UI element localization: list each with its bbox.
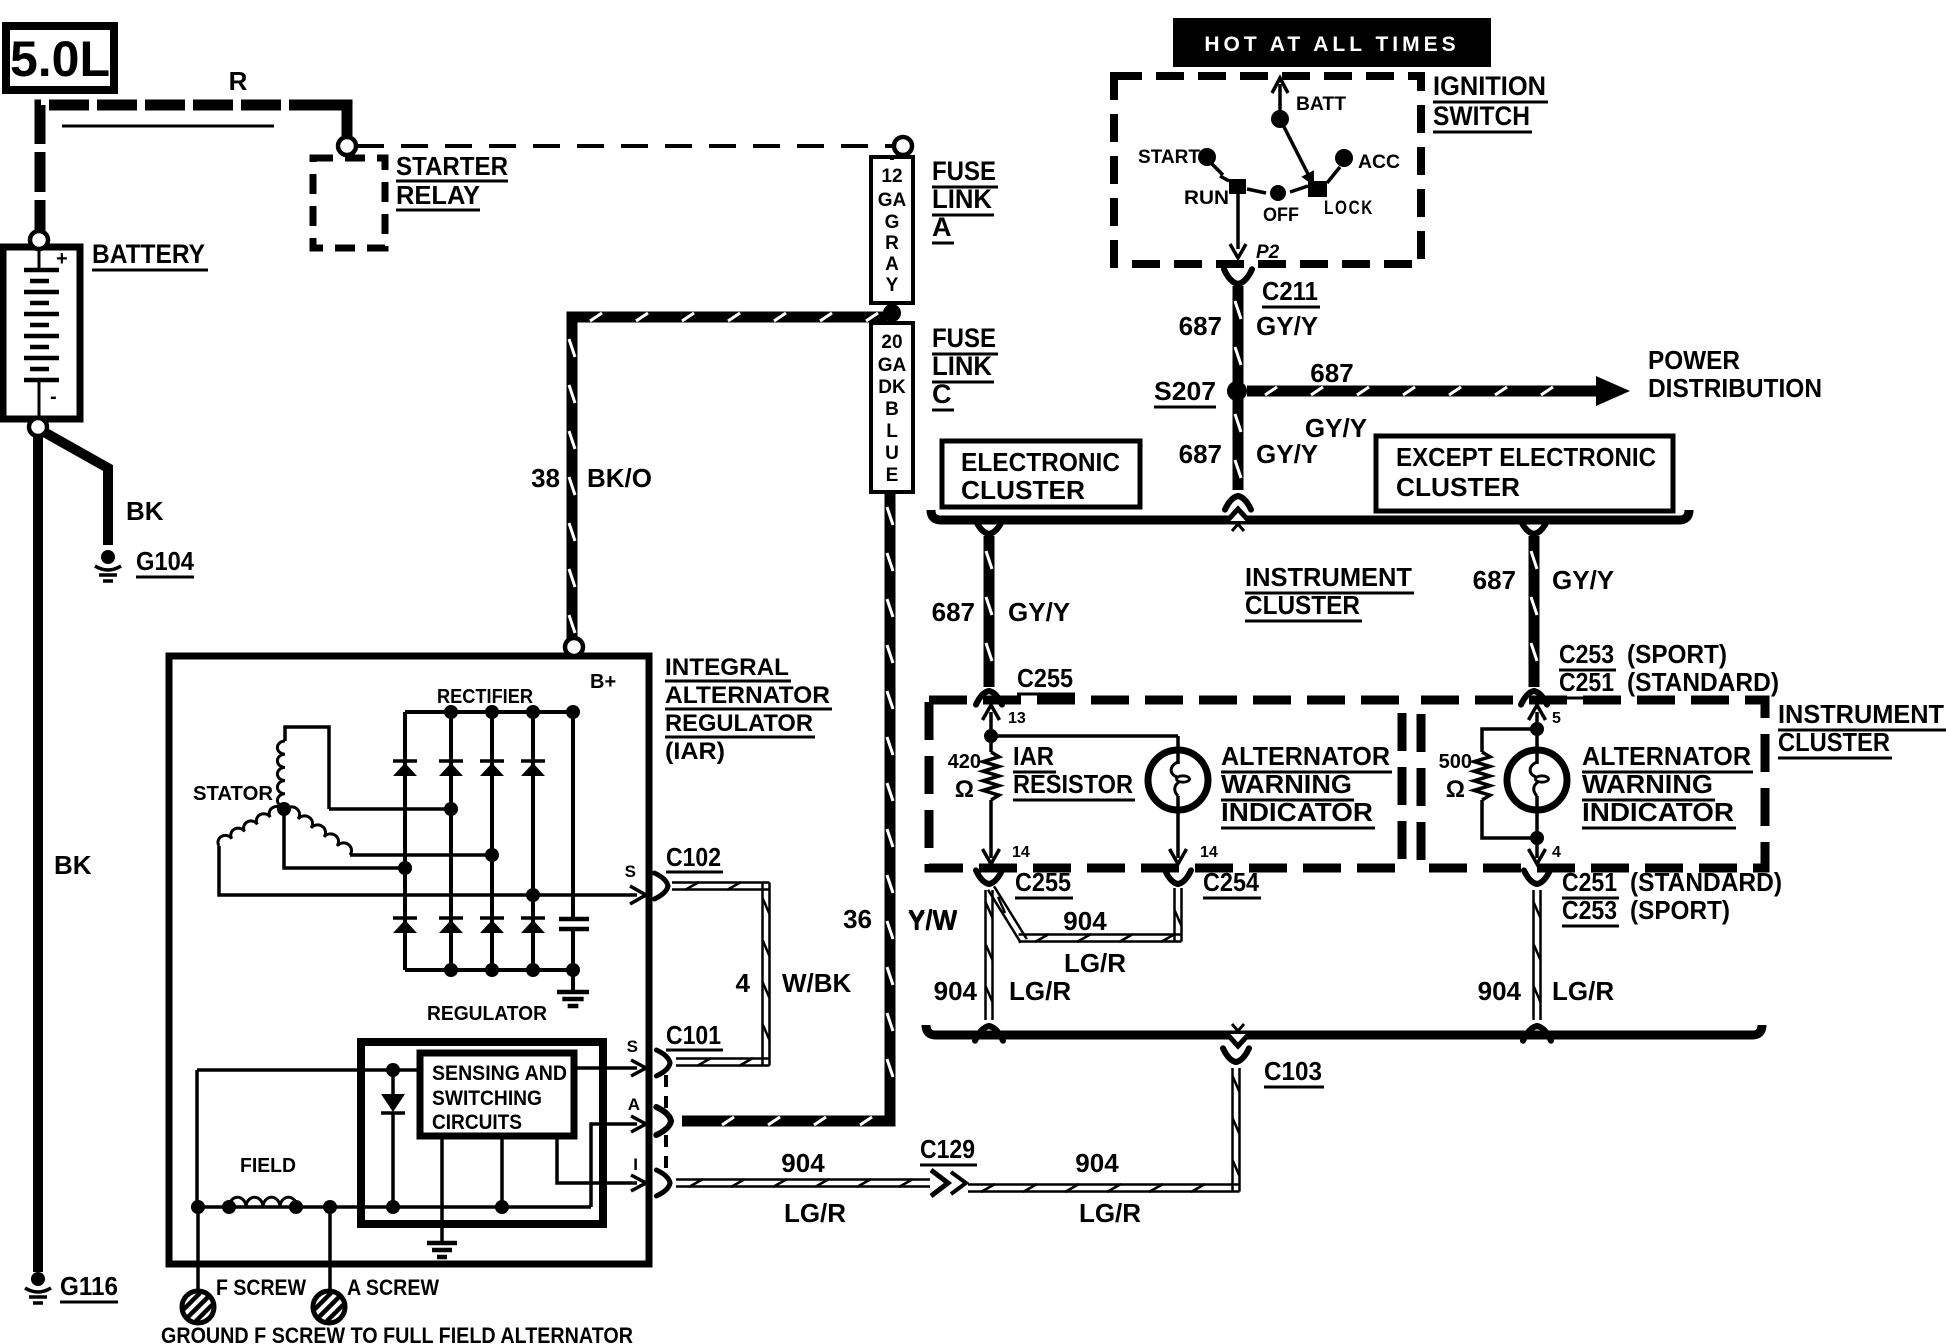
ground G104 xyxy=(95,546,194,581)
ignition switch box xyxy=(1114,76,1421,264)
svg-text:G: G xyxy=(885,212,900,233)
wire stator phase S output xyxy=(219,846,646,904)
pin 14 (resistor) xyxy=(983,840,1030,864)
connector C211 xyxy=(1224,269,1320,307)
wire 687 GY/Y (except electronic cluster) xyxy=(1473,519,1615,704)
svg-text:L: L xyxy=(886,421,898,442)
svg-text:IGNITION: IGNITION xyxy=(1433,71,1546,101)
svg-text:SWITCHING: SWITCHING xyxy=(432,1087,542,1110)
svg-text:RELAY: RELAY xyxy=(396,180,480,210)
svg-text:904: 904 xyxy=(934,976,978,1006)
regulator diode xyxy=(381,1070,405,1207)
svg-text:GA: GA xyxy=(878,355,907,376)
svg-text:GA: GA xyxy=(878,190,907,211)
integral alternator regulator box (IAR) xyxy=(169,656,649,1264)
svg-text:904: 904 xyxy=(781,1148,825,1178)
svg-text:687: 687 xyxy=(1310,358,1353,388)
ignition START contact xyxy=(1138,147,1223,175)
svg-text:INDICATOR: INDICATOR xyxy=(1582,797,1734,827)
sensing and switching circuits box xyxy=(420,1053,574,1136)
wire 904 LG/R (C129 to C103) xyxy=(968,1068,1240,1228)
ignition RUN contact xyxy=(1184,176,1246,209)
label ALTERNATOR WARNING INDICATOR (standard) xyxy=(1582,741,1753,828)
svg-text:WARNING: WARNING xyxy=(1221,769,1352,799)
label INSTRUMENT CLUSTER (electronic) xyxy=(1245,562,1414,621)
pin 4 xyxy=(1529,838,1562,864)
pin 13 xyxy=(983,705,1026,736)
svg-text:ALTERNATOR: ALTERNATOR xyxy=(1221,741,1390,771)
svg-text:20: 20 xyxy=(881,332,902,353)
svg-text:C251: C251 xyxy=(1559,667,1614,697)
node fuse link A terminal xyxy=(894,137,912,155)
IAR resistor (420 ohm) xyxy=(983,736,999,840)
node sensing input xyxy=(386,1063,400,1077)
junction dots rectifier bottom xyxy=(444,963,580,977)
svg-text:FIELD: FIELD xyxy=(240,1155,296,1177)
svg-text:S: S xyxy=(625,862,636,881)
label INTEGRAL ALTERNATOR REGULATOR (IAR) xyxy=(665,654,832,765)
connector C101 pin A (thick) xyxy=(656,1107,671,1135)
svg-text:13: 13 xyxy=(1008,710,1026,727)
connector C255 bottom xyxy=(976,867,1073,898)
ground G116 xyxy=(25,1271,118,1303)
ground rectifier xyxy=(557,970,589,1006)
connector C101 pin I xyxy=(656,1170,670,1196)
svg-text:LOCK: LOCK xyxy=(1324,198,1374,219)
wire 904 LG/R (standard cluster down) xyxy=(1478,890,1615,1041)
svg-text:SENSING AND: SENSING AND xyxy=(432,1062,567,1085)
svg-text:GY/Y: GY/Y xyxy=(1552,565,1614,595)
label FUSE LINK A xyxy=(932,156,998,243)
svg-text:GY/Y: GY/Y xyxy=(1256,311,1318,341)
label FIELD xyxy=(240,1155,296,1177)
wire regulator S output xyxy=(574,1037,646,1076)
connector C129 xyxy=(920,1134,977,1196)
A screw xyxy=(313,1207,439,1323)
svg-text:LINK: LINK xyxy=(932,184,992,214)
svg-text:S: S xyxy=(627,1037,638,1056)
battery xyxy=(3,231,80,436)
stator winding 1 (vertical coil) xyxy=(277,727,329,809)
svg-text:+: + xyxy=(56,248,68,270)
fuse link A (12 GA GRAY) xyxy=(871,155,913,303)
svg-text:SWITCH: SWITCH xyxy=(1433,101,1530,131)
svg-text:BATT: BATT xyxy=(1296,94,1346,115)
svg-text:STATOR: STATOR xyxy=(193,783,274,805)
pin 5 xyxy=(1529,705,1562,729)
svg-text:G116: G116 xyxy=(60,1271,118,1301)
svg-text:WARNING: WARNING xyxy=(1582,769,1713,799)
svg-text:RECTIFIER: RECTIFIER xyxy=(437,686,534,708)
label STATOR xyxy=(193,783,274,805)
ground regulator sensing xyxy=(427,1243,457,1257)
svg-text:OFF: OFF xyxy=(1263,205,1299,226)
wire field left leg xyxy=(195,1070,199,1207)
svg-text:BK: BK xyxy=(126,496,164,526)
wire 687 GY/Y (S207 down) xyxy=(1179,399,1319,510)
HOT AT ALL TIMES banner xyxy=(1174,19,1490,66)
svg-text:Ω: Ω xyxy=(1446,776,1465,803)
svg-text:EXCEPT ELECTRONIC: EXCEPT ELECTRONIC xyxy=(1396,442,1656,472)
svg-text:G104: G104 xyxy=(136,546,194,576)
svg-text:B: B xyxy=(885,399,899,420)
wire stator phase to rectifier leg 3 xyxy=(350,848,499,862)
svg-text:IAR: IAR xyxy=(1013,741,1054,771)
svg-text:INSTRUMENT: INSTRUMENT xyxy=(1245,562,1412,592)
label RECTIFIER xyxy=(437,686,534,708)
C101 dashed link xyxy=(664,1075,668,1170)
svg-text:ALTERNATOR: ALTERNATOR xyxy=(1582,741,1751,771)
ignition P2 output wire xyxy=(1230,194,1280,263)
wire BK battery negative to G116 xyxy=(38,434,92,1272)
svg-text:36: 36 xyxy=(843,904,872,934)
svg-text:R: R xyxy=(885,233,899,254)
label FUSE LINK C xyxy=(932,323,998,410)
svg-text:5: 5 xyxy=(1552,710,1561,727)
stator junction node xyxy=(277,802,291,816)
svg-text:5.0L: 5.0L xyxy=(10,31,110,87)
fuse link C (20 GA DK BLUE) xyxy=(871,323,913,492)
label 500 ohm xyxy=(1439,751,1472,803)
engine tag 5.0L box xyxy=(6,26,114,90)
svg-text:LG/R: LG/R xyxy=(1009,976,1071,1006)
svg-text:S207: S207 xyxy=(1154,376,1216,406)
wire regulator I output xyxy=(557,1136,646,1191)
svg-text:GY/Y: GY/Y xyxy=(1008,597,1070,627)
svg-text:B+: B+ xyxy=(590,671,616,693)
label IAR RESISTOR xyxy=(1013,741,1135,800)
wire stator junction to rectifier leg 1 xyxy=(284,809,412,875)
label 420 ohm xyxy=(948,751,981,803)
ignition rotor contact (BATT to LOCK) xyxy=(1280,119,1314,186)
svg-text:U: U xyxy=(885,443,899,464)
svg-text:REGULATOR: REGULATOR xyxy=(427,1003,548,1025)
svg-text:420: 420 xyxy=(948,751,981,773)
svg-text:C255: C255 xyxy=(1015,867,1071,897)
svg-text:LINK: LINK xyxy=(932,351,992,381)
wire sensing input xyxy=(197,1068,420,1072)
svg-text:A SCREW: A SCREW xyxy=(347,1275,439,1300)
svg-text:C255: C255 xyxy=(1017,663,1073,693)
svg-text:GROUND F SCREW TO FULL FIELD A: GROUND F SCREW TO FULL FIELD ALTERNATOR xyxy=(161,1323,633,1344)
svg-text:CLUSTER: CLUSTER xyxy=(1396,472,1520,502)
connector C251 bottom xyxy=(1524,867,1782,926)
rectifier bus bottom xyxy=(405,968,573,972)
svg-text:12: 12 xyxy=(881,166,902,187)
stator winding 3 (right arc) xyxy=(285,807,352,855)
wire sensing pin to field xyxy=(500,1136,504,1207)
svg-text:904: 904 xyxy=(1478,976,1522,1006)
svg-text:START: START xyxy=(1138,147,1200,168)
wire 38 BK/O xyxy=(531,313,887,648)
ELECTRONIC CLUSTER box xyxy=(942,441,1140,507)
svg-text:CLUSTER: CLUSTER xyxy=(1778,727,1890,757)
svg-text:(SPORT): (SPORT) xyxy=(1630,895,1730,925)
svg-text:4: 4 xyxy=(736,968,751,998)
label REGULATOR xyxy=(427,1003,548,1025)
wire starter relay to fuse link A (dashed) xyxy=(357,144,893,148)
svg-text:C253: C253 xyxy=(1562,895,1617,925)
svg-text:RUN: RUN xyxy=(1184,188,1229,209)
wire 687 GY/Y (C211 to S207) xyxy=(1179,286,1319,383)
svg-text:(STANDARD): (STANDARD) xyxy=(1627,667,1779,697)
svg-text:4: 4 xyxy=(1552,844,1561,861)
svg-text:LG/R: LG/R xyxy=(1079,1198,1141,1228)
F screw xyxy=(182,1207,306,1323)
wire 904 LG/R (regulator I to C129) xyxy=(676,1148,930,1228)
caption ground F screw xyxy=(161,1323,633,1344)
svg-text:Ω: Ω xyxy=(955,776,974,803)
svg-text:FUSE: FUSE xyxy=(932,156,996,186)
svg-text:INSTRUMENT: INSTRUMENT xyxy=(1778,699,1944,729)
svg-text:C211: C211 xyxy=(1262,276,1318,306)
svg-text:687: 687 xyxy=(1179,311,1222,341)
svg-text:ELECTRONIC: ELECTRONIC xyxy=(961,447,1120,477)
connector C103 xyxy=(1223,1048,1324,1087)
svg-text:W/BK: W/BK xyxy=(782,968,852,998)
wire 687 GY/Y (electronic cluster) xyxy=(932,519,1071,704)
alternator warning indicator lamp (standard) xyxy=(1507,729,1567,838)
rectifier diode leg 3 xyxy=(480,712,504,970)
connector C254 xyxy=(1165,867,1261,898)
bus bracket (cluster feed) xyxy=(931,509,1689,531)
connector C101 pin S xyxy=(656,1020,723,1076)
node lamp top (standard) xyxy=(1530,722,1544,736)
svg-text:DK: DK xyxy=(878,377,906,398)
svg-text:38: 38 xyxy=(531,463,560,493)
label Y/W xyxy=(908,906,958,936)
node starter relay terminal xyxy=(338,137,356,155)
label POWER DISTRIBUTION xyxy=(1648,345,1822,403)
svg-text:687: 687 xyxy=(932,597,975,627)
svg-text:14: 14 xyxy=(1200,844,1218,861)
svg-text:R: R xyxy=(229,66,248,96)
svg-text:LG/R: LG/R xyxy=(784,1198,846,1228)
svg-text:687: 687 xyxy=(1179,439,1222,469)
svg-text:(SPORT): (SPORT) xyxy=(1627,639,1727,669)
svg-text:LG/R: LG/R xyxy=(1552,976,1614,1006)
ignition ACC contact xyxy=(1335,149,1400,173)
wire to warning lamp xyxy=(991,734,1178,738)
connector C102 xyxy=(654,842,723,899)
svg-text:A: A xyxy=(932,212,952,242)
regulator box xyxy=(361,1042,603,1224)
electronic instrument cluster dashed box xyxy=(929,700,1402,868)
svg-text:ALTERNATOR: ALTERNATOR xyxy=(665,682,830,709)
standard instrument cluster dashed box xyxy=(1421,700,1765,868)
ignition OFF contact xyxy=(1247,185,1308,226)
svg-text:HOT AT ALL TIMES: HOT AT ALL TIMES xyxy=(1204,33,1459,56)
svg-text:C103: C103 xyxy=(1264,1056,1322,1086)
wire R (battery positive, thick dashed) xyxy=(40,66,347,240)
svg-text:Y: Y xyxy=(886,275,899,296)
starter relay box xyxy=(313,151,508,248)
svg-text:BK: BK xyxy=(54,850,92,880)
label ALTERNATOR WARNING INDICATOR (electronic) xyxy=(1221,741,1392,828)
svg-text:RESISTOR: RESISTOR xyxy=(1013,769,1133,799)
svg-text:CLUSTER: CLUSTER xyxy=(1245,590,1360,620)
svg-text:I: I xyxy=(633,1155,638,1174)
field winding xyxy=(191,1197,591,1214)
alternator warning indicator lamp (electronic) xyxy=(1148,736,1218,864)
svg-text:GY/Y: GY/Y xyxy=(1256,439,1318,469)
svg-text:904: 904 xyxy=(1063,906,1107,936)
wire 36 Y/W xyxy=(682,492,958,1125)
svg-text:Y/W: Y/W xyxy=(908,906,958,936)
label C253 (SPORT) top xyxy=(1559,639,1779,698)
svg-text:500: 500 xyxy=(1439,751,1472,773)
label INSTRUMENT CLUSTER (standard) xyxy=(1778,699,1946,758)
svg-text:C129: C129 xyxy=(920,1134,975,1164)
svg-text:POWER: POWER xyxy=(1648,345,1740,375)
bus bracket (return to C103) xyxy=(926,1024,1762,1046)
svg-text:687: 687 xyxy=(1473,565,1516,595)
node lamp bottom (standard) xyxy=(1530,831,1544,845)
wire BK to G104 xyxy=(44,432,164,545)
node IAR resistor top xyxy=(984,729,998,743)
svg-text:C251: C251 xyxy=(1562,867,1617,897)
rectifier diode leg 1 xyxy=(393,712,417,970)
junction dots rectifier top xyxy=(444,705,580,719)
svg-text:INTEGRAL: INTEGRAL xyxy=(665,654,789,681)
terminal B+ xyxy=(565,638,616,693)
label C255 top xyxy=(1017,663,1075,694)
svg-text:STARTER: STARTER xyxy=(396,151,508,181)
svg-text:BATTERY: BATTERY xyxy=(92,239,205,269)
label BATTERY xyxy=(92,239,208,270)
resistor loop (500 ohm) xyxy=(1474,729,1537,838)
svg-text:14: 14 xyxy=(1012,844,1030,861)
label IGNITION SWITCH xyxy=(1433,71,1548,132)
rectifier bus top xyxy=(405,710,573,714)
rectifier diode leg 4 xyxy=(521,712,545,970)
wire stator phase to rectifier leg 2 xyxy=(329,802,458,816)
wire 4 W/BK xyxy=(672,882,852,1066)
svg-text:FUSE: FUSE xyxy=(932,323,996,353)
junction fuse links xyxy=(883,303,901,323)
svg-text:A: A xyxy=(628,1095,640,1114)
svg-text:A: A xyxy=(885,254,899,275)
svg-text:C: C xyxy=(932,379,952,409)
ignition LOCK contact xyxy=(1308,167,1374,219)
svg-text:904: 904 xyxy=(1075,1148,1119,1178)
svg-text:C101: C101 xyxy=(666,1020,721,1050)
svg-text:ACC: ACC xyxy=(1358,152,1400,173)
svg-text:C102: C102 xyxy=(666,842,721,872)
svg-text:CLUSTER: CLUSTER xyxy=(961,475,1085,505)
splice S207 xyxy=(1154,376,1247,407)
wire sensing pin to ground xyxy=(440,1136,444,1241)
EXCEPT ELECTRONIC CLUSTER box xyxy=(1376,436,1673,511)
svg-text:C253: C253 xyxy=(1559,639,1614,669)
svg-text:F SCREW: F SCREW xyxy=(216,1275,306,1300)
svg-text:CIRCUITS: CIRCUITS xyxy=(432,1111,522,1134)
svg-text:INDICATOR: INDICATOR xyxy=(1221,797,1373,827)
wire 904 LG/R (C255 to C254) xyxy=(988,886,1181,978)
wire regulator A output xyxy=(591,1095,646,1207)
svg-text:C254: C254 xyxy=(1203,867,1259,897)
svg-text:(IAR): (IAR) xyxy=(665,738,725,765)
svg-text:P2: P2 xyxy=(1256,242,1280,263)
capacitor C (B+ filter) xyxy=(559,712,589,970)
svg-text:LG/R: LG/R xyxy=(1064,948,1126,978)
svg-text:(STANDARD): (STANDARD) xyxy=(1630,867,1782,897)
svg-text:E: E xyxy=(886,465,899,486)
svg-text:-: - xyxy=(50,386,57,408)
svg-text:DISTRIBUTION: DISTRIBUTION xyxy=(1648,373,1822,403)
rectifier diode leg 2 xyxy=(439,712,463,970)
wire 687 GY/Y to power distribution xyxy=(1247,358,1630,443)
wire 904 LG/R (C255 down) xyxy=(934,890,1072,1041)
svg-text:BK/O: BK/O xyxy=(587,463,652,493)
svg-text:REGULATOR: REGULATOR xyxy=(665,710,813,737)
ignition BATT terminal xyxy=(1271,78,1346,128)
stator winding 2 (left arc) xyxy=(218,807,283,846)
